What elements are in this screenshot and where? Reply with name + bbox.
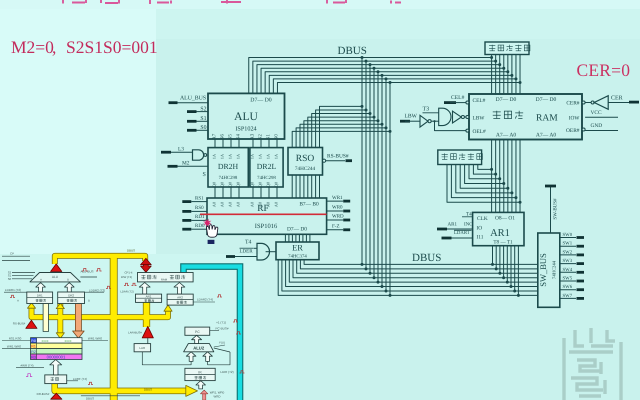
svg-text:GND: GND [591, 123, 603, 129]
svg-text:I11: I11 [477, 235, 484, 241]
svg-text:T3: T3 [423, 107, 430, 113]
svg-text:1A: 1A [235, 154, 240, 159]
svg-text:A0: A0 [211, 202, 216, 207]
svg-text:74HC244: 74HC244 [552, 260, 557, 279]
svg-text:74HC298: 74HC298 [219, 175, 238, 181]
svg-text:Q0: Q0 [219, 182, 224, 187]
svg-text:R/W (T2): R/W (T2) [121, 275, 132, 279]
svg-text:WRD: WRD [332, 214, 344, 220]
svg-text:A: A [17, 300, 19, 303]
svg-text:A0: A0 [273, 202, 278, 207]
svg-text:LDER: LDER [240, 248, 254, 254]
svg-text:74HC298: 74HC298 [257, 175, 276, 181]
svg-text:DBUS: DBUS [144, 388, 152, 392]
svg-text:A0: A0 [265, 202, 270, 207]
svg-text:ISP1016: ISP1016 [255, 223, 278, 230]
svg-text:+1 (T1): +1 (T1) [216, 321, 226, 325]
svg-text:,: , [52, 37, 56, 57]
svg-text:S0: S0 [8, 277, 12, 281]
svg-text:WR1: WR1 [332, 195, 343, 201]
svg-text:XXXX: XXXX [42, 340, 49, 343]
svg-text:RD1: RD1 [195, 214, 205, 220]
svg-text:LAR: LAR [139, 346, 146, 350]
svg-text:Q0: Q0 [273, 182, 278, 187]
svg-text:LDRF (T4): LDRF (T4) [73, 377, 87, 381]
svg-text:D7— D0: D7— D0 [250, 98, 272, 104]
svg-text:CP: CP [10, 252, 14, 256]
svg-text:AR1: AR1 [448, 221, 458, 227]
svg-text:LDAR1: LDAR1 [454, 230, 470, 236]
svg-text:Q0: Q0 [249, 182, 254, 187]
svg-text:SW_BUS: SW_BUS [538, 253, 548, 287]
svg-text:F(U): F(U) [219, 340, 225, 344]
svg-text:O8— O1: O8— O1 [495, 216, 515, 222]
svg-text:ALU2: ALU2 [193, 346, 205, 351]
svg-text:1A: 1A [219, 154, 224, 159]
svg-text:1A: 1A [211, 154, 216, 159]
svg-text:CER#: CER# [566, 101, 579, 107]
svg-text:1A: 1A [227, 154, 232, 159]
svg-text:S6: S6 [219, 134, 225, 140]
svg-text:R1: R1 [31, 344, 36, 348]
svg-text:LAR-BUS#: LAR-BUS# [128, 330, 142, 334]
svg-text:CLK: CLK [477, 216, 488, 222]
svg-text:00000001: 00000001 [47, 354, 66, 359]
svg-text:VCC: VCC [591, 110, 602, 116]
svg-text:A7— A0: A7— A0 [496, 133, 517, 139]
svg-text:S2: S2 [257, 134, 263, 140]
svg-text:A0: A0 [249, 202, 254, 207]
svg-text:S5: S5 [227, 134, 233, 140]
svg-text:CEL#: CEL# [473, 98, 486, 104]
svg-text:F-Z: F-Z [332, 224, 340, 230]
svg-text:XXXX: XXXX [65, 340, 72, 343]
svg-text:LDAR (T2): LDAR (T2) [120, 290, 133, 294]
svg-text:A7: A7 [211, 133, 217, 140]
svg-text:LDDR2 (T2): LDDR2 (T2) [89, 288, 105, 292]
svg-text:RS-BUS#: RS-BUS# [13, 322, 26, 326]
svg-text:RS0: RS0 [195, 205, 204, 211]
svg-text:ISP1024: ISP1024 [235, 126, 256, 133]
svg-text:RS1 RS0: RS1 RS0 [9, 336, 22, 340]
svg-text:IO: IO [477, 226, 483, 232]
svg-text:DBUS: DBUS [127, 249, 135, 253]
svg-text:1A: 1A [273, 154, 278, 159]
svg-text:WR1 WR0: WR1 WR0 [88, 336, 102, 340]
svg-text:SW-BUS#: SW-BUS# [553, 198, 559, 220]
svg-text:AR1: AR1 [490, 228, 510, 239]
svg-text:DBUS: DBUS [86, 396, 94, 400]
svg-text:DR-BUS#: DR-BUS# [37, 392, 50, 396]
svg-text:A0: A0 [235, 202, 240, 207]
svg-text:RS-BUS#: RS-BUS# [327, 154, 349, 160]
svg-text:74HC244: 74HC244 [295, 166, 316, 172]
svg-text:CER=0: CER=0 [577, 60, 631, 80]
svg-text:S2S1S0=001: S2S1S0=001 [66, 37, 158, 57]
svg-text:ER: ER [292, 243, 303, 253]
svg-text:DR2L: DR2L [257, 162, 277, 171]
svg-text:WR1 WR0: WR1 WR0 [7, 344, 21, 348]
svg-text:S: S [203, 172, 206, 178]
svg-text:RAM: RAM [536, 114, 558, 124]
svg-text:INC: INC [464, 221, 473, 227]
svg-text:R2: R2 [31, 350, 36, 354]
svg-text:ALU_BUS: ALU_BUS [180, 96, 206, 102]
svg-text:1A: 1A [257, 154, 262, 159]
svg-text:LBW: LBW [405, 114, 418, 120]
svg-text:LDIR (T2): LDIR (T2) [220, 370, 233, 374]
svg-text:#WR (T4): #WR (T4) [21, 363, 34, 367]
svg-text:D7— D0: D7— D0 [496, 97, 517, 103]
svg-text:AR2: AR2 [177, 295, 183, 299]
svg-text:AR1: AR1 [146, 295, 152, 299]
svg-text:DR2H: DR2H [218, 162, 239, 171]
svg-text:CER: CER [611, 95, 623, 101]
svg-text:OER#: OER# [566, 128, 580, 134]
svg-text:Q0: Q0 [257, 182, 262, 187]
svg-text:1A: 1A [249, 154, 254, 159]
svg-text:M2: M2 [182, 161, 190, 167]
svg-text:LBW: LBW [473, 115, 486, 121]
svg-text:DBUS: DBUS [338, 45, 367, 57]
svg-text:RSO: RSO [296, 154, 315, 164]
svg-text:D7— D0: D7— D0 [287, 227, 307, 233]
svg-text:D7— D0: D7— D0 [536, 97, 557, 103]
svg-text:A: A [40, 279, 42, 282]
svg-text:A7— A0: A7— A0 [536, 133, 557, 139]
svg-text:T4: T4 [245, 239, 252, 245]
svg-text:IOW: IOW [569, 115, 581, 121]
svg-text:DBUS: DBUS [412, 252, 441, 264]
svg-text:74HC374: 74HC374 [288, 254, 307, 260]
svg-text:B7— B0: B7— B0 [299, 202, 319, 208]
svg-text:R3: R3 [31, 355, 36, 359]
svg-text:L3: L3 [178, 147, 184, 153]
svg-text:OEL#: OEL# [473, 129, 486, 135]
svg-text:M2=0: M2=0 [11, 37, 54, 57]
svg-text:ALU: ALU [234, 111, 258, 123]
svg-text:DR2: DR2 [68, 293, 74, 297]
svg-text:Q0: Q0 [227, 182, 232, 187]
svg-text:Q0: Q0 [211, 182, 216, 187]
svg-text:IR: IR [198, 370, 202, 374]
svg-text:ALU: ALU [52, 275, 59, 279]
svg-text:LDAR2 (T4): LDAR2 (T4) [197, 298, 213, 302]
svg-text:RS1: RS1 [195, 195, 204, 201]
svg-text:A0: A0 [219, 202, 224, 207]
svg-text:DR1: DR1 [37, 293, 43, 297]
svg-text:RD0: RD0 [195, 223, 205, 229]
svg-text:S0: S0 [273, 134, 279, 140]
svg-text:1A: 1A [265, 154, 270, 159]
svg-text:S1: S1 [265, 134, 271, 140]
svg-text:B: B [88, 300, 90, 303]
svg-text:B: B [67, 279, 69, 282]
svg-text:S4: S4 [235, 134, 241, 140]
svg-text:PC-BUS#: PC-BUS# [215, 326, 228, 330]
svg-text:T8 — T1: T8 — T1 [493, 240, 513, 246]
svg-text:WR0: WR0 [332, 205, 343, 211]
svg-text:LDDR1 (T2): LDDR1 (T2) [5, 288, 21, 292]
svg-text:CEL#: CEL# [451, 95, 465, 101]
svg-text:Q0: Q0 [235, 182, 240, 187]
svg-text:RAM: RAM [161, 278, 168, 282]
svg-text:PC: PC [195, 330, 200, 334]
svg-text:A0: A0 [257, 202, 262, 207]
svg-text:A0: A0 [227, 202, 232, 207]
svg-text:A3: A3 [249, 133, 255, 140]
svg-text:WRD: WRD [214, 395, 221, 399]
svg-text:R0: R0 [31, 339, 36, 343]
svg-text:Q0: Q0 [265, 182, 270, 187]
